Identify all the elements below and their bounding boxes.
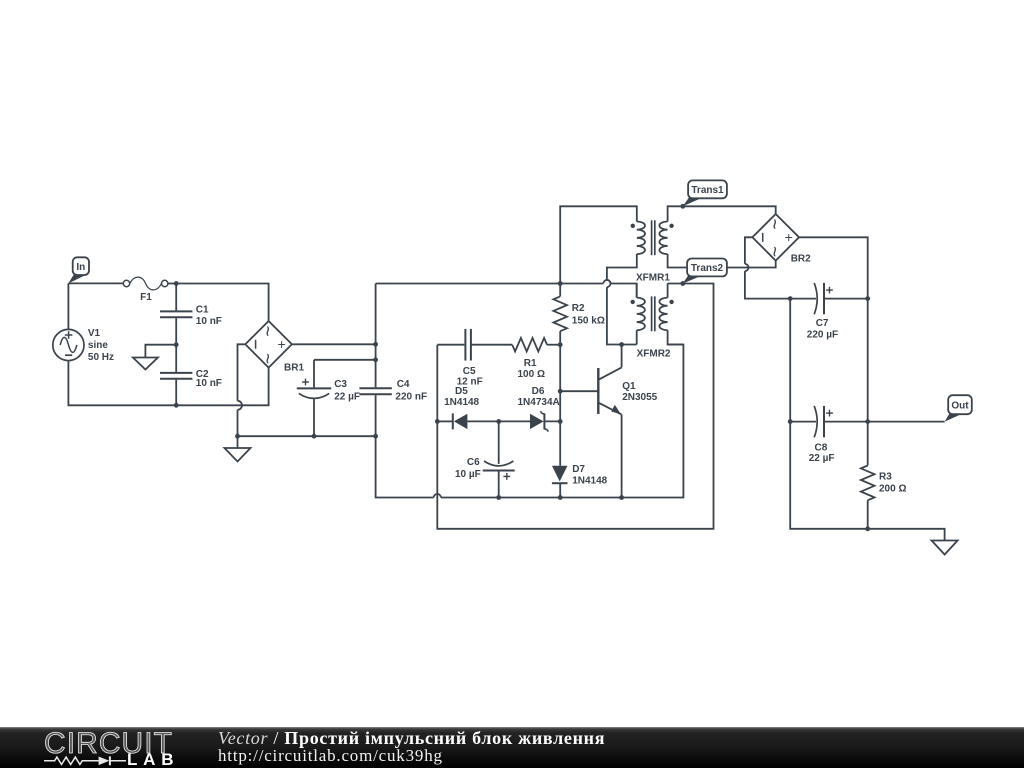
node (junction) <box>788 419 793 424</box>
capacitor C8 <box>790 421 816 423</box>
node Trans1 <box>680 204 685 209</box>
node (junction) <box>619 342 624 347</box>
logo resistor-diode squiggle <box>40 751 230 771</box>
svg-text:R3: R3 <box>879 472 892 483</box>
svg-text:~: ~ <box>256 326 277 337</box>
svg-text:~: ~ <box>763 246 784 257</box>
svg-text:2N3055: 2N3055 <box>622 392 657 403</box>
node (junction) <box>174 342 179 347</box>
svg-text:XFMR1: XFMR1 <box>636 272 670 283</box>
node (junction) <box>865 526 870 531</box>
bridge rectifier BR1 <box>245 321 292 368</box>
wire <box>559 345 561 422</box>
svg-text:10 nF: 10 nF <box>196 378 222 389</box>
node (junction) <box>558 495 563 500</box>
wire (XFMR2 right) <box>667 284 669 298</box>
wire (BR2 right) <box>799 237 868 298</box>
svg-text:~: ~ <box>256 353 277 364</box>
wire <box>636 330 638 344</box>
wire (BR2 left) <box>745 237 753 264</box>
flag In <box>68 271 86 284</box>
wire (BR1 + output) <box>293 343 376 345</box>
resistor R3 <box>867 422 869 466</box>
flag Out <box>945 410 963 422</box>
node (junction) <box>496 419 501 424</box>
wire (XFMR2 left top) <box>636 284 638 298</box>
svg-text:1N4148: 1N4148 <box>444 397 479 408</box>
capacitor C1 <box>175 284 177 311</box>
resistor R1 <box>512 338 547 352</box>
ground <box>932 541 958 555</box>
diode D7 1N4148 <box>559 421 561 465</box>
wire <box>68 361 268 406</box>
svg-text:150 kΩ: 150 kΩ <box>572 315 605 326</box>
svg-text:Trans1: Trans1 <box>691 185 724 196</box>
svg-text:C7: C7 <box>816 318 829 329</box>
svg-text:D6: D6 <box>532 386 545 397</box>
node (junction) <box>865 296 870 301</box>
node (junction) <box>865 419 870 424</box>
flag Trans2 <box>683 272 701 284</box>
node (junction) <box>235 434 240 439</box>
node (junction) <box>435 419 440 424</box>
node (junction) <box>558 281 563 286</box>
svg-text:1N4734A: 1N4734A <box>518 397 560 408</box>
svg-text:100 Ω: 100 Ω <box>518 369 545 380</box>
svg-text:50 Hz: 50 Hz <box>88 352 114 363</box>
wire (Out net) <box>868 421 945 423</box>
capacitor C6 <box>498 421 500 464</box>
ground <box>133 358 158 370</box>
svg-text:10 nF: 10 nF <box>196 316 222 327</box>
zener diode D6 1N4734A <box>499 420 530 422</box>
capacitor C2 <box>175 345 177 372</box>
resistor R2 <box>559 284 561 297</box>
svg-text:+: + <box>278 336 286 352</box>
svg-text:In: In <box>76 262 85 273</box>
node (junction) <box>373 357 378 362</box>
node (junction) <box>558 419 563 424</box>
wire <box>238 344 245 401</box>
capacitor C3 <box>313 360 315 388</box>
node (junction) <box>373 342 378 347</box>
wire <box>867 299 869 422</box>
svg-text:200 Ω: 200 Ω <box>879 483 906 494</box>
node (junction) <box>312 434 317 439</box>
wire (emitter) <box>621 415 623 498</box>
node (junction) <box>174 403 179 408</box>
wire (bottom rail) <box>376 436 434 497</box>
node (junction) <box>373 434 378 439</box>
wire (Trans1 rail) <box>668 206 776 221</box>
svg-text:C4: C4 <box>397 379 410 390</box>
svg-text:220 nF: 220 nF <box>395 391 427 402</box>
node Trans2 <box>680 281 685 286</box>
svg-text:C3: C3 <box>334 379 347 390</box>
wire <box>145 345 176 358</box>
capacitor C4 <box>375 284 377 388</box>
svg-text:Trans2: Trans2 <box>691 263 724 274</box>
wire (V+ rail) <box>376 283 561 285</box>
svg-text:R1: R1 <box>524 358 537 369</box>
svg-text:BR2: BR2 <box>791 254 811 265</box>
wire (XFMR1 right bottom) <box>668 254 776 268</box>
svg-text:+: + <box>785 229 793 245</box>
fuse F1 <box>123 280 129 286</box>
svg-text:220 µF: 220 µF <box>807 329 838 340</box>
wire (negative rail) <box>238 435 376 437</box>
node (junction) <box>619 495 624 500</box>
svg-text:22 µF: 22 µF <box>809 453 835 464</box>
wire <box>668 330 684 344</box>
flag Trans1 <box>683 194 702 207</box>
svg-text:D7: D7 <box>572 464 585 475</box>
svg-text:Q1: Q1 <box>622 381 636 392</box>
svg-text:10 µF: 10 µF <box>455 469 481 480</box>
node (junction) <box>174 281 179 286</box>
node (junction) <box>558 342 563 347</box>
node (junction) <box>788 296 793 301</box>
ground <box>225 448 251 462</box>
capacitor C5 <box>437 344 464 346</box>
svg-text:C5: C5 <box>463 366 476 377</box>
svg-text:~: ~ <box>763 219 784 230</box>
svg-text:C6: C6 <box>467 457 480 468</box>
node (junction) <box>496 495 501 500</box>
wire <box>168 284 269 321</box>
svg-text:V1: V1 <box>88 328 101 339</box>
svg-text:F1: F1 <box>140 292 152 303</box>
diode D5 1N4148 <box>437 420 452 422</box>
wire (Q1 base) <box>560 390 598 392</box>
svg-text:R2: R2 <box>572 303 585 314</box>
wire <box>67 283 69 329</box>
wire <box>560 206 637 283</box>
wire (collector) <box>621 345 623 368</box>
svg-text:XFMR2: XFMR2 <box>637 349 671 360</box>
wire <box>314 359 376 361</box>
svg-text:1N4148: 1N4148 <box>572 475 607 486</box>
svg-text:C1: C1 <box>196 304 209 315</box>
voltage source V1 <box>53 329 84 360</box>
capacitor C7 <box>790 298 816 300</box>
transformer XFMR1 <box>637 222 645 255</box>
node (junction) <box>558 389 563 394</box>
wire <box>68 282 123 284</box>
wire (Trans2 net) <box>437 284 713 529</box>
svg-text:sine: sine <box>88 340 108 351</box>
svg-text:BR1: BR1 <box>284 362 304 373</box>
wire <box>790 422 944 541</box>
bridge rectifier BR2 <box>752 214 799 261</box>
transformer XFMR2 <box>637 298 645 331</box>
wire <box>789 299 791 422</box>
wire (XFMR1 left bottom) <box>607 254 637 280</box>
wire <box>436 345 438 422</box>
svg-text:D5: D5 <box>455 386 468 397</box>
wire <box>237 436 239 448</box>
svg-text:C8: C8 <box>815 442 828 453</box>
transistor Q1 2N3055 <box>597 368 599 414</box>
svg-text:22 µF: 22 µF <box>334 391 360 402</box>
svg-text:Out: Out <box>951 400 969 411</box>
